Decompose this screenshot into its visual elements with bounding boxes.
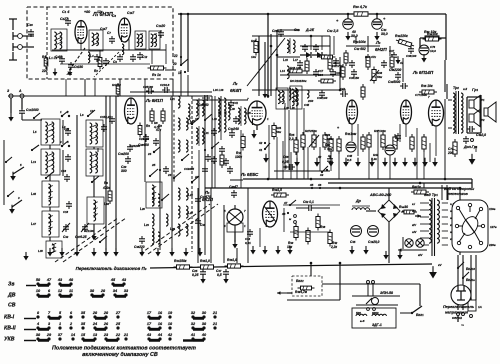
switch small left b <box>7 191 14 197</box>
svg-text:С32 2,8: С32 2,8 <box>327 29 338 33</box>
svg-text:УКВ: УКВ <box>4 337 15 343</box>
vertical bus x106 <box>105 96 107 250</box>
transformer T1 core <box>432 198 435 256</box>
ground Z <box>8 113 13 122</box>
tube V2 6I1P <box>125 98 138 124</box>
svg-text:С4047: С4047 <box>229 185 238 189</box>
band row label КВ-II <box>4 326 16 332</box>
wire vert x339b <box>338 151 340 179</box>
svg-text:Rэк10к: Rэк10к <box>427 32 438 36</box>
cap C29t <box>278 29 284 37</box>
svg-text:R3 1к: R3 1к <box>152 73 161 77</box>
speaker cap side <box>463 136 469 144</box>
psu horiz b <box>290 231 330 233</box>
svg-text:С488: С488 <box>55 55 63 59</box>
label R48t 10k <box>427 32 438 36</box>
cap C47 0.5 <box>216 269 229 277</box>
mid coil extra a <box>152 194 160 206</box>
label L45 <box>31 192 36 196</box>
label L3 6N2P <box>375 40 387 52</box>
cap col1 a <box>65 128 71 136</box>
osc coil ladder L23 <box>144 214 154 240</box>
svg-text:L31: L31 <box>204 131 209 135</box>
svg-text:С30: С30 <box>27 23 33 27</box>
label R45 10k <box>421 84 433 88</box>
resistor R47 1k <box>411 185 429 194</box>
cap C38b 220 <box>134 236 145 249</box>
cap C40 47 <box>229 185 238 198</box>
wire R49 right <box>439 37 446 39</box>
svg-text:L48: L48 <box>38 249 43 253</box>
resistor ladder item 10 <box>410 134 414 152</box>
svg-text:R45 10к: R45 10к <box>421 84 433 88</box>
wire vert x265 <box>264 42 266 90</box>
resistor ladder item 4 <box>329 136 333 154</box>
svg-text:С30100: С30100 <box>317 96 328 100</box>
svg-text:30,0: 30,0 <box>381 32 388 36</box>
band КВ-II contact group 1 <box>36 322 73 329</box>
cap C38 400 <box>138 134 149 147</box>
wire 6n2p v3 <box>389 46 391 56</box>
cathode cap C4 <box>55 55 65 64</box>
output transformer T2 <box>453 91 463 134</box>
svg-text:С42 602: С42 602 <box>354 47 366 51</box>
svg-text:С20200: С20200 <box>130 144 140 148</box>
svg-text:127в: 127в <box>490 225 497 229</box>
switch c1 <box>204 114 212 121</box>
label L48 <box>38 249 43 253</box>
svg-text:С33: С33 <box>63 235 69 239</box>
bridge rectifier ABC-80-260 <box>378 188 400 263</box>
bottom bus y263 <box>150 264 432 268</box>
resistor R37 <box>306 228 310 245</box>
cap C49 <box>467 126 486 137</box>
label C33 5000 <box>388 80 401 84</box>
gang link hatch 4 <box>148 204 218 254</box>
coil pair L29 <box>196 98 204 118</box>
power rail 3 <box>243 187 460 189</box>
switch can2 col1 <box>33 113 40 119</box>
svg-text:15: 15 <box>195 117 199 121</box>
wire vert x352 drop <box>351 124 353 141</box>
label C42 602 <box>354 47 366 51</box>
label C45 05 <box>347 154 353 162</box>
svg-text:150к: 150к <box>327 137 334 141</box>
svg-text:+80: +80 <box>84 10 90 14</box>
ground psu 2 <box>383 251 402 260</box>
cap mid det <box>297 60 303 68</box>
band КВ-II contact group 2 <box>81 322 121 329</box>
svg-text:С16: С16 <box>61 169 67 173</box>
selector pins <box>455 203 484 248</box>
svg-text:С771500: С771500 <box>415 93 427 97</box>
coil L38a <box>289 88 297 100</box>
mid bank coil L25 <box>178 140 188 152</box>
wire horiz y90 <box>252 89 346 91</box>
svg-text:0,01: 0,01 <box>245 241 251 245</box>
svg-text:Л2 6И1П: Л2 6И1П <box>145 98 164 103</box>
wire Z drop <box>10 98 12 113</box>
wire vert x297 drop <box>296 103 298 179</box>
switch contact 47 <box>283 200 296 206</box>
label C21 68 <box>100 27 107 31</box>
UKV switch contact 19 <box>178 71 186 75</box>
wire UKV out2 <box>187 14 189 96</box>
svg-text:21: 21 <box>123 333 128 337</box>
electrolytic C76 <box>419 45 436 55</box>
ground bank 6 <box>113 248 118 257</box>
svg-text:R411ом: R411ом <box>345 132 357 136</box>
label R43 3.3k <box>371 153 379 161</box>
resistor 6n2p a <box>344 50 348 66</box>
svg-text:43: 43 <box>121 278 127 282</box>
resistor R48t <box>423 37 442 41</box>
junction C46 <box>347 13 350 16</box>
svg-text:24: 24 <box>92 322 98 326</box>
svg-text:Р2: Р2 <box>481 118 485 122</box>
band Зв lead-in <box>26 285 36 287</box>
svg-text:2,3: 2,3 <box>288 137 294 141</box>
UKV wire bus3 <box>99 50 101 57</box>
svg-text:10к: 10к <box>251 55 256 59</box>
switch col2 c <box>99 236 107 243</box>
pickup head ZDG-1 box <box>352 308 396 328</box>
svg-text:над Тр1: над Тр1 <box>424 193 438 197</box>
svg-text:44: 44 <box>157 333 163 337</box>
diode D2 <box>312 52 327 58</box>
svg-text:1А: 1А <box>478 305 482 309</box>
cap c_x208 y158 <box>205 154 211 162</box>
wire vert x224 <box>223 205 225 263</box>
gang link hatch 1 <box>55 218 118 262</box>
svg-text:21: 21 <box>212 322 217 326</box>
label C58 <box>282 155 289 164</box>
svg-text:L46: L46 <box>104 202 109 206</box>
gang link hatch 2 <box>63 218 126 262</box>
wire vert x340 <box>339 57 341 90</box>
svg-text:R471к: R471к <box>412 185 421 189</box>
ground under ladder 3 <box>343 158 349 167</box>
wire vert x406 drop <box>405 124 407 137</box>
label C43 240 <box>304 99 313 107</box>
svg-text:11: 11 <box>69 289 73 293</box>
svg-text:R6 R19150к: R6 R19150к <box>290 79 307 83</box>
cap C46 001 <box>245 229 253 245</box>
gang bank 2 mid <box>86 149 103 176</box>
resistor R38 <box>316 214 326 231</box>
ground bank 1 <box>47 248 52 257</box>
coil pair L33 <box>218 96 226 116</box>
band Зв contact group 2 <box>110 278 127 285</box>
cap c_x232 <box>229 130 235 138</box>
wire speaker gnd <box>475 146 477 152</box>
svg-text:22: 22 <box>115 333 121 337</box>
svg-text:42: 42 <box>317 155 322 159</box>
diode D1 <box>300 52 311 58</box>
rail3 left ext <box>205 187 243 189</box>
strip line b <box>230 179 243 181</box>
svg-text:ЗДГ-1: ЗДГ-1 <box>372 323 382 327</box>
wire UKV out up <box>180 14 182 96</box>
resistor R25 <box>294 137 298 155</box>
cap 6i1p b <box>101 124 107 132</box>
cap C25 160 <box>143 85 154 94</box>
strip line a <box>274 170 330 172</box>
svg-text:С216,8: С216,8 <box>160 83 170 87</box>
cap C37 100 <box>389 49 397 60</box>
svg-text:46: 46 <box>317 183 322 187</box>
label L47 <box>31 222 36 226</box>
resistor R18 100 <box>287 66 305 73</box>
top B+ bus right <box>369 13 446 15</box>
cap C42a 100 <box>340 87 348 97</box>
cap C35a 300 <box>313 69 324 77</box>
cap C36a 100 <box>330 69 341 77</box>
cap C21 68 <box>160 83 170 93</box>
resistor ladder item 5 <box>337 136 341 154</box>
if can above 6K4P b <box>290 86 302 109</box>
svg-text:L23: L23 <box>144 223 149 227</box>
ground bank 3 <box>74 248 79 257</box>
cap C41 240 <box>228 100 239 108</box>
cap C33 6-25 <box>62 223 70 239</box>
wire drop x268 <box>267 14 269 98</box>
svg-text:Гр1: Гр1 <box>472 88 479 92</box>
label +80 <box>84 10 90 14</box>
svg-text:С43240: С43240 <box>228 127 239 131</box>
switch 24b <box>167 172 181 179</box>
psu horiz a <box>283 204 340 206</box>
plug circle <box>451 285 471 305</box>
wire mains tail <box>458 298 471 322</box>
svg-text:L17: L17 <box>293 58 298 62</box>
resistor ladder item 2 <box>305 129 317 150</box>
wire 6n2p v1 <box>355 36 357 44</box>
wire mains pair 2a <box>470 255 472 300</box>
electrolytic C45 <box>385 145 395 155</box>
svg-text:ДВ: ДВ <box>7 293 16 299</box>
ground under ladder 11 <box>432 158 438 167</box>
mid bank switch <box>181 154 189 161</box>
resistor R49b <box>295 286 315 294</box>
cap c_x226 y160 <box>223 158 229 166</box>
vertical bus x145 <box>144 96 146 182</box>
svg-text:28: 28 <box>103 311 109 315</box>
coil L34 tall <box>218 112 226 132</box>
selector label 127 <box>490 225 497 229</box>
IF vert b <box>321 36 323 50</box>
svg-text:Р1: Р1 <box>481 98 485 102</box>
extra sw mid <box>161 194 169 201</box>
dial lamp L2 <box>416 239 424 247</box>
wire x241 down <box>240 130 242 188</box>
cap C20 300 <box>121 156 131 173</box>
wire vert extra 4 <box>319 147 321 171</box>
wire y92 seg <box>130 91 212 93</box>
wire vert x330 det <box>329 36 331 57</box>
svg-text:220в: 220в <box>488 243 496 247</box>
wire A drop <box>21 98 23 109</box>
cap C25 0.25 <box>192 269 206 277</box>
wire mains pair 1b <box>462 255 464 310</box>
resistor R45v <box>361 84 365 100</box>
UKV cap C10 <box>130 54 136 62</box>
resistor R16 10k <box>251 39 258 60</box>
wire vert x424b <box>423 149 425 179</box>
UKV wire bus4 <box>81 38 166 64</box>
small circles M <box>289 215 296 224</box>
input terminal A <box>18 89 24 98</box>
label R31 10k <box>325 143 332 151</box>
label C46 <box>351 30 358 38</box>
electrolytic C46 <box>336 14 353 29</box>
label tube L1 6N3P <box>92 12 113 18</box>
svg-text:С492,8: С492,8 <box>476 133 486 137</box>
svg-text:R1: R1 <box>42 55 46 59</box>
inner dashed divider UKV <box>46 7 48 79</box>
svg-text:С141000: С141000 <box>26 108 39 112</box>
grid leak R1 <box>41 55 48 73</box>
cap C38c <box>395 72 401 80</box>
label DopGr <box>463 139 478 150</box>
ground under ladder 1 <box>294 158 300 167</box>
coil can L46 <box>87 197 104 224</box>
svg-text:С107: С107 <box>127 11 135 15</box>
label L39 L38 <box>284 106 295 110</box>
label a-b <box>360 319 365 323</box>
arrow left of box <box>277 291 287 295</box>
label C20 200 <box>130 144 140 148</box>
col x221 wire <box>220 96 222 140</box>
svg-text:47: 47 <box>283 201 288 205</box>
cap C58 with arrow <box>283 164 295 170</box>
svg-text:С38220: С38220 <box>134 245 145 249</box>
wire vert extra 5 <box>330 151 332 171</box>
wire col1 spine2 <box>62 150 64 176</box>
svg-text:6000: 6000 <box>372 311 379 315</box>
wire y208 h <box>296 207 306 209</box>
magic eye V6 6E5S <box>263 201 278 227</box>
switch 24c <box>147 147 160 156</box>
mid coil extra b <box>152 232 160 244</box>
label R29 150k <box>325 133 334 141</box>
junction C44 <box>376 13 379 16</box>
jack pair EPN <box>367 281 375 297</box>
band ДВ contact group 2 <box>90 289 129 296</box>
label R41om <box>345 132 357 136</box>
band УКВ contact group 2 <box>71 333 98 340</box>
resistor ladder item 12 <box>453 139 457 157</box>
ground under ladder 6 <box>382 158 388 167</box>
wire vert x289 drop <box>288 110 290 170</box>
svg-text:Вкл1б: Вкл1б <box>466 267 475 271</box>
speaker Gr1 coil a <box>469 96 480 113</box>
svg-text:СВ: СВ <box>8 303 16 309</box>
resistor R2 <box>94 55 102 74</box>
resistor R34 47k <box>365 54 376 70</box>
resistor R9 <box>108 188 112 204</box>
wire top right corner2 <box>419 39 421 46</box>
switch Vkl1 <box>411 306 424 317</box>
cap C24 160 <box>198 95 210 107</box>
resistor R39 <box>271 188 289 197</box>
dial lamp L1 <box>405 239 413 247</box>
band ДВ contact group 1 <box>36 289 73 296</box>
svg-text:Rэк30: Rэк30 <box>399 205 408 209</box>
plus mark <box>337 126 340 130</box>
wire vert x445b <box>444 99 446 179</box>
band КВ-I contact group 2 <box>81 311 121 318</box>
cap UKV k2 <box>103 58 109 66</box>
svg-text:сети: сети <box>452 316 463 320</box>
horizontal wire y96 <box>8 95 212 97</box>
band КВ-II contact group 4 <box>191 322 217 329</box>
ground 47 arrow <box>395 56 403 65</box>
cap C7 <box>107 31 115 44</box>
jack circles <box>367 308 376 311</box>
svg-text:R494,7м: R494,7м <box>295 290 308 294</box>
label R32 220k <box>395 34 408 38</box>
svg-text:R38: R38 <box>320 225 326 229</box>
vertical bus x160 <box>159 130 161 250</box>
caption line 2 <box>82 352 158 358</box>
input terminal Z <box>7 89 13 98</box>
wire mains pair 2b <box>475 255 477 300</box>
if can L6 <box>135 31 146 49</box>
svg-text:С41: С41 <box>233 101 239 105</box>
wire y100 seg <box>192 99 248 101</box>
band row label ДВ <box>7 293 16 299</box>
wire R3 to contacts <box>165 70 176 96</box>
link col1 cans <box>50 145 94 241</box>
resistor ladder item 1 <box>301 132 305 150</box>
mains terminals <box>457 313 473 318</box>
label L5 <box>33 130 37 134</box>
switch on x192 b <box>191 175 199 183</box>
label Vkl2 <box>296 279 304 283</box>
svg-text:С23: С23 <box>64 127 70 131</box>
electrolytic C45b <box>350 226 362 245</box>
speaker cone <box>484 102 496 122</box>
mid bank coil L26 <box>178 188 193 200</box>
tube V1a 6N3P triode <box>75 21 87 44</box>
wire UKV inner bus2 <box>60 63 150 65</box>
resistor 6n2p b <box>390 54 394 70</box>
tube V3a 6N2P triode <box>347 100 358 124</box>
transformer T1 primary <box>429 200 431 243</box>
label R9 470k <box>102 181 110 190</box>
capacitor C30 <box>27 23 34 37</box>
label R41 170 <box>331 64 343 68</box>
tube V1b 6N3P triode <box>119 18 131 42</box>
label C23 4700 <box>64 127 70 131</box>
ground bank 10 <box>183 248 188 257</box>
svg-text:КВ-II: КВ-II <box>4 326 16 332</box>
contact 48 <box>281 212 289 216</box>
resistor R10 100k <box>235 134 245 160</box>
extra gnd left <box>23 252 28 261</box>
svg-text:12к: 12к <box>97 10 103 14</box>
cap UKV k1 <box>94 54 100 62</box>
psu vert a <box>259 228 261 247</box>
label vid so storony <box>444 187 474 196</box>
svg-text:29: 29 <box>46 333 52 337</box>
svg-text:48: 48 <box>68 278 74 282</box>
junction dots rails <box>267 178 462 190</box>
UKV diag dash <box>94 52 119 77</box>
svg-text:С6: С6 <box>112 14 116 18</box>
svg-text:R461,0: R461,0 <box>227 258 237 262</box>
